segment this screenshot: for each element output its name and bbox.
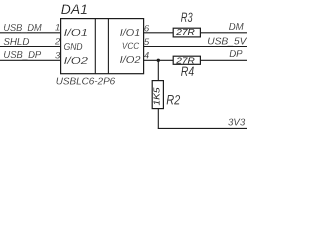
wire pin 5 to net USB_5V xyxy=(144,46,247,48)
svg-text:2: 2 xyxy=(54,37,61,48)
svg-text:R3: R3 xyxy=(181,10,193,25)
svg-text:1K5: 1K5 xyxy=(153,87,162,106)
IC internal divider left xyxy=(94,19,96,74)
svg-text:27R: 27R xyxy=(175,56,195,66)
IC U=DA1 body xyxy=(61,19,144,74)
svg-text:R4: R4 xyxy=(181,64,194,79)
svg-text:I/O1: I/O1 xyxy=(64,28,88,39)
svg-text:SHLD: SHLD xyxy=(3,37,30,48)
wire R2 down xyxy=(157,109,159,129)
wire net USB_DM to pin 1 xyxy=(0,32,61,34)
svg-text:VCC: VCC xyxy=(122,40,139,51)
svg-text:R2: R2 xyxy=(166,92,180,107)
wire corner to net 3V3 xyxy=(158,127,247,129)
svg-text:GND: GND xyxy=(64,42,83,53)
resistor R3 body xyxy=(173,28,200,37)
svg-text:DP: DP xyxy=(229,49,243,60)
wire junction down to R2 xyxy=(157,60,159,80)
svg-text:3V3: 3V3 xyxy=(228,118,245,129)
svg-text:USB_DM: USB_DM xyxy=(3,23,42,34)
wire net SHLD to pin 2 xyxy=(0,46,61,48)
wire R3 to net DM xyxy=(200,32,247,34)
svg-text:DM: DM xyxy=(229,22,244,33)
resistor R4 body xyxy=(173,56,200,64)
svg-text:USB_DP: USB_DP xyxy=(3,50,41,61)
svg-text:1: 1 xyxy=(55,23,60,34)
svg-text:I/O2: I/O2 xyxy=(120,55,141,66)
svg-text:USBLC6-2P6: USBLC6-2P6 xyxy=(56,77,116,88)
svg-text:I/O1: I/O1 xyxy=(120,28,140,39)
svg-text:I/O2: I/O2 xyxy=(64,56,89,67)
resistor R2 body xyxy=(152,81,163,109)
wire pin 4 to R4 xyxy=(144,59,174,61)
wire R4 to net DP xyxy=(200,59,247,61)
wire net USB_DP to pin 3 xyxy=(0,59,61,61)
svg-text:USB_5V: USB_5V xyxy=(207,37,247,48)
svg-text:DA1: DA1 xyxy=(61,1,88,17)
IC internal divider right xyxy=(107,19,109,74)
wire pin 6 to R3 xyxy=(144,32,174,34)
svg-text:27R: 27R xyxy=(175,27,195,37)
junction node pin4/R2 xyxy=(157,59,160,62)
